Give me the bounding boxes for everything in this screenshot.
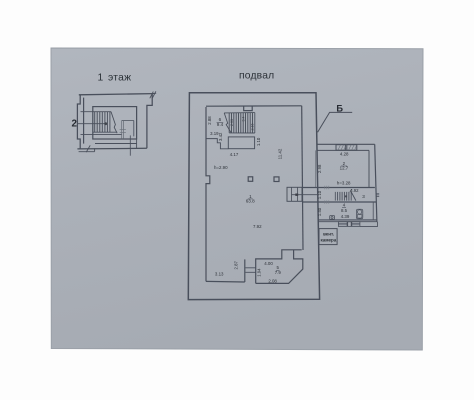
- svg-text:4.28: 4.28: [340, 152, 349, 157]
- svg-text:7.92: 7.92: [253, 224, 262, 229]
- svg-text:63.8: 63.8: [246, 199, 255, 204]
- window 1 top wall: [336, 145, 345, 151]
- vent chamber box: [319, 229, 337, 245]
- room 2 labels: [340, 152, 349, 166]
- room 3 label: [362, 194, 365, 199]
- svg-text:h=3.28: h=3.28: [337, 180, 351, 185]
- door ticks corridor bottom: [325, 200, 329, 203]
- tambour box: [287, 187, 302, 201]
- stair dims rotated: [230, 117, 254, 131]
- tambour inner verticals: [292, 187, 298, 201]
- outer top wall: [79, 94, 153, 95]
- room 4 inner right wall: [372, 202, 374, 220]
- basement stair top line: [224, 112, 255, 114]
- svg-text:этаж: этаж: [108, 72, 131, 83]
- svg-text:4.00: 4.00: [264, 261, 273, 266]
- wall room3 bottom: [302, 201, 376, 203]
- dim 1.94 rotated: [256, 268, 261, 277]
- title: 1 этаж: [98, 72, 132, 83]
- interior top wall: [206, 105, 302, 107]
- room 5 labels: [264, 261, 281, 284]
- stair flight break diagonal: [111, 112, 117, 134]
- door ticks corridor top: [325, 186, 329, 189]
- dim 11.42 rotated: [278, 148, 283, 159]
- svg-text:1.94: 1.94: [256, 268, 261, 277]
- room 3 stair left edge: [334, 192, 336, 201]
- break mark top right: [150, 91, 156, 98]
- band bottom and right closure: [360, 222, 378, 227]
- left outer wall with recess: [77, 95, 80, 149]
- dim 2.88 rotated: [207, 116, 212, 125]
- dim 1.10 rotated (room1 top right): [256, 137, 261, 146]
- stair top landing line: [93, 111, 111, 113]
- dim 4.17: [230, 152, 239, 157]
- h=2.90: [214, 165, 228, 170]
- interior lower landing line: [95, 143, 137, 145]
- svg-text:7.9: 7.9: [275, 270, 282, 275]
- svg-text:3.42: 3.42: [218, 132, 223, 141]
- stair right edge: [254, 113, 256, 133]
- svg-text:подвал: подвал: [239, 71, 274, 82]
- column 1: [248, 177, 253, 182]
- svg-text:2.08: 2.08: [268, 279, 277, 284]
- room 2 inner top wall: [317, 149, 369, 151]
- stair bottom line: [229, 132, 255, 134]
- svg-text:1.40: 1.40: [317, 207, 322, 216]
- upper landing step right of stair: [122, 121, 134, 137]
- wall room2/room3: [302, 187, 375, 189]
- svg-text:2.03: 2.03: [230, 119, 234, 126]
- basement stair treads: [229, 113, 252, 133]
- svg-text:2.16: 2.16: [251, 124, 255, 131]
- room1 bottom-left dims: [215, 271, 224, 276]
- svg-text:камера: камера: [320, 238, 336, 243]
- break mark bottom left: [86, 145, 90, 152]
- tambour mid line: [292, 194, 319, 196]
- stair bottom lines: [93, 132, 122, 134]
- room 2 outer top wall: [317, 143, 375, 145]
- svg-text:4.17: 4.17: [230, 152, 239, 157]
- svg-text:2.98: 2.98: [317, 164, 322, 173]
- room 2 inner right wall: [368, 150, 370, 187]
- window band below room 4: [338, 222, 347, 227]
- svg-text:4.39: 4.39: [341, 214, 350, 219]
- door ticks room1-room5: [245, 268, 255, 273]
- stair zigzag left edge: [224, 113, 231, 133]
- landing box under stair: [228, 137, 254, 149]
- room 4 bottom wall double: [318, 219, 377, 221]
- interior long right wall: [302, 106, 303, 250]
- svg-text:8.5: 8.5: [341, 208, 348, 213]
- room 2 inner left wall line: [315, 150, 317, 187]
- room 6 labels: [217, 117, 224, 127]
- room 3 stair diagonal: [351, 192, 356, 201]
- room 5 outline with notch and diagonal corner: [256, 250, 303, 284]
- svg-text:1.10: 1.10: [317, 190, 322, 199]
- dim 7.92: [253, 224, 262, 229]
- column 2: [274, 177, 279, 182]
- door ticks room3 right: [376, 193, 379, 196]
- svg-text:9.4: 9.4: [217, 122, 224, 127]
- dim 1.10 rotated corridor: [317, 190, 322, 199]
- axis/section line sticking below: [129, 135, 131, 155]
- label 2: [72, 118, 78, 129]
- svg-text:2.88: 2.88: [207, 116, 212, 125]
- stairwell box: [93, 107, 137, 139]
- sink: [330, 216, 335, 220]
- label 2 leader lines: [77, 112, 106, 135]
- interior long left wall: [206, 107, 210, 281]
- dim 3.19: [210, 131, 219, 136]
- tambour dark dot: [295, 194, 298, 196]
- svg-text:вент.: вент.: [323, 231, 334, 236]
- svg-text:4.92: 4.92: [350, 188, 359, 193]
- svg-text:12.7: 12.7: [340, 165, 349, 170]
- room 4 labels: [341, 203, 350, 220]
- svg-text:1: 1: [98, 72, 104, 83]
- window 2 top wall: [347, 145, 357, 151]
- left inner wall face: [83, 98, 85, 144]
- svg-text:3.13: 3.13: [215, 271, 224, 276]
- niche in top wall: [244, 106, 253, 111]
- interior right wall: [136, 107, 138, 149]
- svg-text:1.10: 1.10: [256, 137, 261, 146]
- door in landing wall: [122, 121, 124, 139]
- svg-text:2.87: 2.87: [233, 261, 238, 270]
- room 6 bottom step walls: [206, 139, 228, 149]
- stair walk dot: [345, 195, 347, 197]
- dim 3.42 rotated: [218, 132, 223, 141]
- svg-text:11.42: 11.42: [278, 148, 283, 159]
- svg-text:h=2.90: h=2.90: [214, 165, 228, 170]
- room 1 label: [246, 194, 255, 204]
- lower bottom wall line left part: [79, 148, 95, 151]
- svg-text:3: 3: [362, 194, 365, 199]
- thick wall pair room1/room5: [244, 259, 246, 282]
- toilet: [356, 209, 362, 219]
- svg-text:3.4: 3.4: [241, 117, 245, 122]
- svg-text:2: 2: [72, 118, 78, 129]
- right outer wall: [147, 94, 152, 148]
- main block outer wall: [188, 93, 319, 300]
- wing outer right wall: [375, 144, 377, 222]
- walk line dot: [104, 122, 107, 125]
- bottom outer wall: [77, 147, 146, 150]
- room 3 stair treads: [338, 192, 352, 201]
- svg-text:Б: Б: [336, 104, 343, 114]
- stair treads: [95, 112, 110, 133]
- dim 4.92 with tick: [350, 189, 352, 192]
- title: подвал: [239, 71, 274, 82]
- room 1 bottom wall: [206, 280, 245, 283]
